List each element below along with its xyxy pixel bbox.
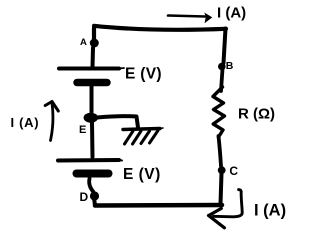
svg-text:D: D: [80, 190, 89, 204]
wire top (node A to top-right corner): [94, 26, 226, 30]
svg-text:I (A): I (A): [254, 202, 286, 220]
ground bar tail: [160, 127, 163, 130]
wire bottom: [95, 203, 222, 208]
battery E1 positive plate: [59, 67, 119, 71]
svg-text:E: E: [79, 124, 86, 136]
svg-text:B: B: [226, 60, 234, 72]
node C: [218, 166, 226, 174]
wire node D to battery E2: [89, 179, 93, 193]
current arrow I(A) left shaft: [51, 103, 53, 141]
battery E2 positive plate: [58, 158, 119, 163]
ground hatch 2: [133, 131, 142, 144]
wire battery E1 to node E: [90, 86, 94, 112]
battery E1 negative plate: [77, 79, 107, 87]
ground hatch 3: [141, 131, 150, 144]
battery E2 negative plate: [77, 170, 109, 178]
wire right lower (node C to bottom-right corner): [221, 173, 222, 204]
wire resistor to node C: [219, 136, 222, 166]
svg-text:R (Ω): R (Ω): [238, 106, 275, 123]
wire bottom-left corner up to node D: [94, 198, 95, 206]
node A: [90, 39, 99, 48]
battery E1 positive plate tail: [119, 67, 124, 70]
ground hatch 1: [125, 131, 134, 144]
svg-text:E (V): E (V): [125, 66, 162, 83]
wire node A to top corner: [92, 28, 96, 40]
wire node E to battery E2: [90, 122, 95, 157]
svg-text:C: C: [229, 164, 238, 178]
current arrow I(A) bottom shaft: [214, 190, 243, 217]
node D: [90, 191, 99, 200]
wire node E to ground: [97, 116, 138, 127]
ground bar: [123, 129, 160, 130]
svg-text:A: A: [80, 37, 87, 48]
node B: [218, 63, 226, 71]
node E: [84, 113, 98, 123]
svg-text:I (A): I (A): [217, 5, 246, 22]
ground hatch 4: [150, 131, 159, 144]
current arrow I(A) top shaft: [168, 16, 205, 17]
svg-text:E (V): E (V): [123, 166, 161, 183]
wire node A to battery E1: [91, 48, 96, 67]
current arrow I(A) left head: [45, 102, 58, 112]
current arrow I(A) top head: [204, 13, 212, 24]
wire node B to resistor: [221, 69, 223, 91]
battery E2 positive plate tail: [119, 159, 122, 162]
svg-text:I (A): I (A): [11, 115, 40, 130]
resistor R: [213, 87, 225, 137]
wire right upper (corner to node B): [224, 29, 226, 64]
current arrow I(A) bottom head: [209, 208, 225, 227]
